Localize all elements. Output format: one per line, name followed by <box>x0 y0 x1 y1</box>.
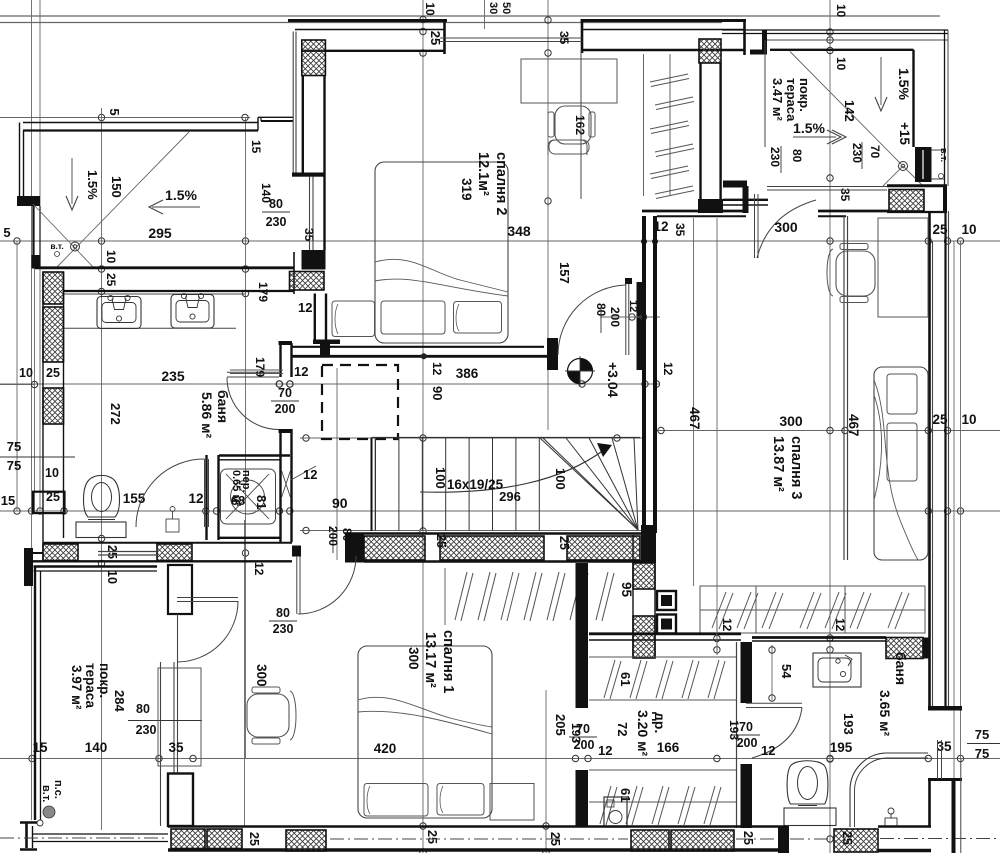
svg-text:35: 35 <box>557 31 571 45</box>
svg-text:95: 95 <box>619 582 634 598</box>
svg-text:12: 12 <box>761 743 775 758</box>
markers door per <box>276 381 293 387</box>
wall pier terrace door <box>168 565 192 614</box>
svg-text:10: 10 <box>105 570 119 584</box>
dim line misc verticals <box>245 218 718 853</box>
sink bath left <box>97 297 141 329</box>
bath counter front <box>64 327 236 329</box>
window hall band <box>98 552 157 556</box>
wall corner bottom-left <box>20 823 37 850</box>
dim line y758 across plan <box>0 755 1000 761</box>
terrace top-right drain <box>883 162 923 187</box>
hatched bottom b4 <box>631 830 669 851</box>
terrace top-right diagonal <box>790 52 901 165</box>
bed bedroom3 <box>874 367 928 560</box>
svg-text:295: 295 <box>148 225 172 241</box>
dim line x423 vertical <box>420 0 426 853</box>
dim 54 line <box>769 645 775 701</box>
dim line top boundary <box>0 16 940 23</box>
closet bedroom2 hangers <box>644 54 695 199</box>
svg-text:30: 30 <box>487 2 499 14</box>
svg-text:75: 75 <box>975 727 989 742</box>
svg-text:50: 50 <box>500 2 512 14</box>
svg-text:100: 100 <box>433 467 448 489</box>
svg-text:35: 35 <box>168 740 184 755</box>
chair bedroom2 <box>548 106 595 154</box>
level marker +3.04 <box>565 356 595 386</box>
dr closet upper shelf <box>589 657 736 700</box>
svg-text:200: 200 <box>275 402 296 416</box>
svg-text:230: 230 <box>850 143 864 163</box>
wall pier terrace bottom <box>168 774 193 827</box>
svg-text:3.20 м²: 3.20 м² <box>635 710 651 756</box>
wall bedroom1 north band <box>24 543 292 586</box>
closet corridor hangers <box>445 568 614 625</box>
svg-text:15: 15 <box>32 740 48 755</box>
hatched bottom b5 <box>671 830 734 851</box>
toilet bath2 <box>784 761 836 826</box>
axis dashdot bottom <box>0 838 1000 839</box>
desk bedroom1 <box>158 668 201 766</box>
wall stub bottom <box>778 826 789 853</box>
svg-text:80: 80 <box>340 528 354 542</box>
svg-text:25: 25 <box>840 831 854 845</box>
svg-text:25: 25 <box>434 534 448 548</box>
svg-text:покр.: покр. <box>97 663 112 698</box>
stairs direction arrow <box>420 443 612 492</box>
svg-text:1.5%: 1.5% <box>896 68 912 100</box>
svg-text:5: 5 <box>107 108 122 115</box>
svg-text:10: 10 <box>961 222 976 237</box>
svg-text:16x19/25: 16x19/25 <box>447 477 504 492</box>
bed bedroom1 <box>358 646 492 818</box>
svg-text:10: 10 <box>423 2 437 16</box>
svg-text:в.т.: в.т. <box>50 241 63 251</box>
svg-text:12: 12 <box>430 362 444 376</box>
svg-text:193: 193 <box>569 723 583 743</box>
svg-text:13.87 м²: 13.87 м² <box>770 436 786 492</box>
dim line x548 vertical <box>545 0 551 430</box>
wall band below stairs <box>345 534 650 563</box>
svg-text:12: 12 <box>188 491 203 506</box>
svg-text:25: 25 <box>428 31 443 45</box>
svg-text:72: 72 <box>615 722 630 736</box>
dr closet lower shelf <box>589 770 736 825</box>
hatched bottom b6 <box>834 829 878 852</box>
svg-text:467: 467 <box>846 414 861 437</box>
svg-text:179: 179 <box>253 357 267 377</box>
svg-text:193: 193 <box>727 720 741 740</box>
wall dr north <box>589 634 741 640</box>
svg-text:80: 80 <box>790 149 804 163</box>
wall bath2 west <box>737 642 753 828</box>
pouf bedroom2 <box>548 140 587 155</box>
dashed void rectangle <box>322 365 398 439</box>
svg-text:75: 75 <box>975 746 989 761</box>
door terrace bedroom1 <box>177 598 238 663</box>
svg-text:100: 100 <box>553 468 568 490</box>
svg-text:193: 193 <box>841 713 856 735</box>
svg-text:1.5%: 1.5% <box>793 120 825 136</box>
svg-text:230: 230 <box>136 723 157 737</box>
svg-text:35: 35 <box>936 739 952 754</box>
wall cap stairs right <box>641 525 656 563</box>
svg-text:80: 80 <box>276 606 290 620</box>
svg-text:др.: др. <box>652 712 668 733</box>
svg-text:142: 142 <box>842 100 857 122</box>
toilet bath1 <box>76 475 126 537</box>
svg-text:баня: баня <box>215 390 231 423</box>
wall shaft column <box>633 533 655 658</box>
svg-text:284: 284 <box>112 690 127 712</box>
svg-text:54: 54 <box>779 664 794 679</box>
wall bedroom2 west with window <box>292 76 326 295</box>
wall bottom band <box>168 827 786 851</box>
door bedroom3 <box>755 194 817 258</box>
svg-text:25: 25 <box>557 536 571 550</box>
svg-text:230: 230 <box>273 622 294 636</box>
terrace top-left drain <box>71 242 80 251</box>
svg-text:12.1м²: 12.1м² <box>475 152 491 196</box>
svg-text:10: 10 <box>19 366 33 380</box>
door bath inner <box>136 459 209 527</box>
hatched band stairs mid <box>440 536 544 560</box>
svg-text:10: 10 <box>834 4 848 18</box>
svg-text:319: 319 <box>459 178 474 201</box>
wall terrace bottom-left <box>34 567 158 821</box>
svg-text:467: 467 <box>687 407 702 430</box>
door bedroom1 hall <box>292 546 356 615</box>
hatched shaft upper <box>633 563 655 589</box>
svg-text:150: 150 <box>109 176 124 198</box>
wall closet east / terrace west <box>698 63 768 213</box>
svg-text:75: 75 <box>7 458 21 473</box>
hatched pier west lower <box>43 388 64 424</box>
shower valve <box>885 808 897 827</box>
junction dots bedroom3 wall <box>641 239 658 245</box>
stairs winders fan <box>540 438 638 530</box>
hatched pier west upper <box>43 272 64 304</box>
dim line x245 vertical <box>242 117 248 759</box>
wall bottom face right <box>878 827 931 851</box>
dim 12 wall bedroom3 <box>600 314 660 320</box>
svg-text:25: 25 <box>104 273 118 287</box>
svg-text:п.с.: п.с. <box>52 780 64 799</box>
hatched pier west mid <box>43 307 64 362</box>
hatched bottom b1 <box>171 829 205 849</box>
hatched pier top closet <box>699 39 721 63</box>
svg-text:+15: +15 <box>897 122 912 145</box>
hatched band stairs left <box>364 536 425 560</box>
svg-text:25: 25 <box>247 832 261 846</box>
dim tick west wall <box>0 381 38 387</box>
svg-text:13.17 м²: 13.17 м² <box>422 632 438 688</box>
hatched pier top-right <box>889 190 924 212</box>
hatched band stairs right <box>567 536 640 560</box>
svg-text:5.86 м²: 5.86 м² <box>199 392 215 438</box>
svg-text:348: 348 <box>507 223 531 239</box>
svg-text:тераса: тераса <box>784 78 799 122</box>
svg-text:1.5%: 1.5% <box>165 187 197 203</box>
dim line x830 vertical <box>827 0 833 853</box>
svg-text:230: 230 <box>768 147 782 167</box>
svg-text:205: 205 <box>553 714 568 736</box>
svg-text:300: 300 <box>774 219 798 235</box>
svg-text:спалня 1: спалня 1 <box>440 630 456 693</box>
svg-text:70: 70 <box>868 145 882 159</box>
terrace parapet bottom <box>33 834 168 842</box>
bed bedroom2 pillows <box>332 301 502 337</box>
dim line y117 top-left <box>0 114 250 120</box>
bed bedroom2 <box>375 162 508 343</box>
wall bath north band <box>35 268 295 294</box>
dim line right verticals <box>954 241 961 853</box>
svg-text:тераса: тераса <box>83 663 98 709</box>
svg-text:12: 12 <box>661 362 675 376</box>
dim line y241 across plan <box>0 238 1000 244</box>
svg-text:10: 10 <box>961 412 976 427</box>
svg-text:12: 12 <box>720 618 734 632</box>
svg-text:420: 420 <box>374 741 397 756</box>
duct boxes <box>657 591 676 634</box>
svg-text:5: 5 <box>3 225 10 240</box>
svg-text:140: 140 <box>85 740 108 755</box>
chair bedroom3 <box>827 244 875 303</box>
svg-text:235: 235 <box>161 368 185 384</box>
svg-text:спалня 2: спалня 2 <box>493 152 509 215</box>
window terrace east <box>161 614 178 826</box>
wall bedroom2 south <box>292 338 558 370</box>
svg-text:10: 10 <box>834 57 848 71</box>
svg-text:12: 12 <box>294 364 308 379</box>
terrace right slope arrow2 <box>793 130 846 144</box>
wall west column faces <box>32 255 64 560</box>
svg-text:35: 35 <box>302 228 316 242</box>
svg-text:25: 25 <box>932 412 948 427</box>
svg-text:70: 70 <box>278 386 292 400</box>
svg-text:25: 25 <box>425 830 439 844</box>
svg-text:75: 75 <box>7 439 21 454</box>
door bath2 <box>746 703 802 758</box>
hatched pier bath2 <box>886 638 923 659</box>
window line left jog <box>230 370 283 374</box>
window pier top-right <box>915 147 944 182</box>
door bedroom2 80/200 <box>558 284 629 355</box>
svg-text:300: 300 <box>254 664 269 687</box>
dim line y511 across plan <box>0 508 1000 514</box>
sink bath2 <box>813 653 861 687</box>
svg-text:61: 61 <box>618 672 633 686</box>
dim line y384 bath/hall <box>0 381 660 387</box>
terrace top-left slope diagonals <box>33 131 190 268</box>
desk bedroom3 <box>878 218 928 317</box>
svg-text:386: 386 <box>456 366 479 381</box>
wardrobe bedroom3 <box>700 586 925 633</box>
per closet vent X <box>281 466 316 499</box>
svg-text:81: 81 <box>254 495 269 509</box>
svg-text:25: 25 <box>741 831 755 845</box>
terrace top-left boundary walls <box>17 117 293 268</box>
svg-text:25: 25 <box>46 490 60 504</box>
sink bath right <box>171 295 214 329</box>
svg-text:15: 15 <box>249 140 263 154</box>
hatched shaft lower <box>633 616 655 658</box>
chair bedroom1 <box>247 687 296 744</box>
svg-text:179: 179 <box>256 282 270 302</box>
hatched pier hall1 <box>43 544 78 561</box>
wall cap bath2 ne <box>923 638 929 659</box>
svg-text:15: 15 <box>1 493 15 508</box>
terrace slope arrow down <box>66 158 78 210</box>
svg-text:68: 68 <box>231 493 245 508</box>
washing machine symbol <box>221 469 276 524</box>
wall bedroom3 west <box>644 216 655 533</box>
svg-text:+3.04: +3.04 <box>605 362 621 398</box>
svg-text:3.47 м²: 3.47 м² <box>770 78 785 122</box>
terrace slope arrow left <box>149 200 200 214</box>
svg-text:12: 12 <box>298 300 312 315</box>
svg-text:12: 12 <box>252 562 266 576</box>
svg-text:1.5%: 1.5% <box>85 170 100 200</box>
svg-text:61: 61 <box>618 788 633 802</box>
floor drain symbol <box>166 507 179 533</box>
svg-text:12: 12 <box>598 743 612 758</box>
hatched pier bath north <box>290 272 325 291</box>
wall hall west stub <box>313 294 340 345</box>
wall bedroom2 north-right <box>440 19 746 199</box>
hatched bottom b3 <box>286 830 326 851</box>
dim line left verticals <box>17 0 40 820</box>
wall box west toilet <box>33 492 65 513</box>
dim line y430 bedroom3 <box>655 427 1000 433</box>
svg-text:80: 80 <box>269 197 283 211</box>
svg-text:в.т.: в.т. <box>939 148 949 162</box>
svg-text:230: 230 <box>266 215 287 229</box>
svg-text:300: 300 <box>779 413 803 429</box>
svg-text:спалня 3: спалня 3 <box>788 436 804 499</box>
appliance box <box>604 797 627 827</box>
svg-text:12: 12 <box>303 467 317 482</box>
wall bedroom2 north-left <box>288 19 447 173</box>
wall bath2 north <box>752 638 886 642</box>
svg-text:35: 35 <box>673 223 687 237</box>
stairs treads <box>372 438 641 532</box>
svg-text:10: 10 <box>45 466 59 480</box>
svg-text:10: 10 <box>104 250 118 264</box>
svg-text:296: 296 <box>499 489 521 504</box>
door bath 70/200 leaf and arc <box>227 372 279 429</box>
svg-text:12: 12 <box>833 618 847 632</box>
shower bath2 <box>850 753 928 827</box>
hatched pier hall2 <box>157 544 192 561</box>
wall bedroom2 door post east <box>625 278 643 370</box>
svg-text:162: 162 <box>573 115 587 135</box>
svg-text:80: 80 <box>136 702 150 716</box>
markers wall bath2 dims <box>714 620 720 655</box>
desk bedroom2 <box>521 59 617 103</box>
terrace right slope arrow <box>875 57 887 111</box>
hatched bottom b2 <box>207 829 242 849</box>
svg-text:3.97 м²: 3.97 м² <box>69 665 84 710</box>
walls per closet <box>207 341 293 542</box>
svg-text:166: 166 <box>657 740 680 755</box>
svg-text:195: 195 <box>830 740 853 755</box>
wall dr west <box>576 563 589 826</box>
svg-text:157: 157 <box>557 262 572 284</box>
terrace top-right boundary <box>722 30 948 186</box>
svg-text:300: 300 <box>406 647 421 670</box>
wall band top-right <box>767 186 947 212</box>
svg-text:272: 272 <box>108 403 123 425</box>
dim line stairs top/bottom <box>300 435 645 534</box>
svg-text:3.65 м²: 3.65 м² <box>877 690 893 736</box>
svg-text:90: 90 <box>430 386 445 400</box>
svg-text:12: 12 <box>627 300 639 312</box>
dim line x101 vertical <box>98 108 104 830</box>
wall bedroom3 north <box>642 181 890 561</box>
nightstand bedroom1 <box>490 784 534 821</box>
wall corner bottom-right <box>928 740 962 853</box>
svg-text:90: 90 <box>332 495 348 511</box>
svg-text:баня: баня <box>893 652 909 685</box>
wall bedroom3 east <box>928 186 962 711</box>
svg-text:200: 200 <box>326 526 340 546</box>
svg-text:в.т.: в.т. <box>40 785 52 802</box>
svg-text:25: 25 <box>46 366 60 380</box>
hatched pier bedroom2 west <box>302 40 326 76</box>
